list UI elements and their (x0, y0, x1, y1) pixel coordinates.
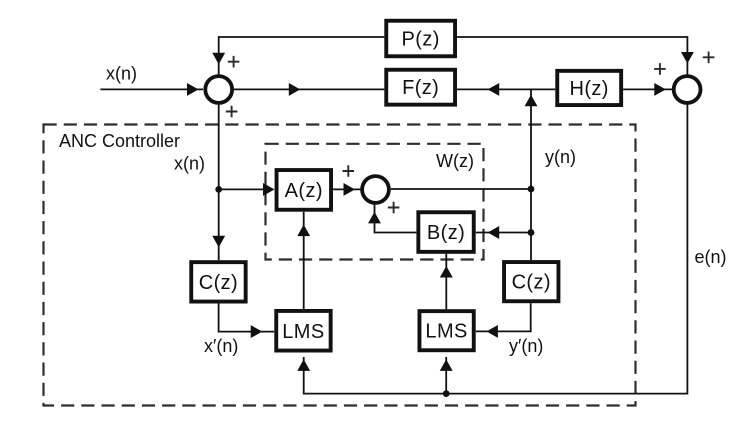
W(z) dashed boundary (266, 144, 484, 260)
svg-text:y′(n): y′(n) (509, 336, 543, 356)
wire left summer down to C(z) (218, 105, 220, 261)
svg-text:e(n): e(n) (695, 247, 727, 267)
wire P(z) to right summer (457, 37, 687, 75)
summer middle (W(z) output) (362, 176, 389, 203)
wire middle summer output (391, 188, 531, 190)
wire y(n) down to C(z) right (530, 189, 532, 260)
svg-text:A(z): A(z) (285, 180, 323, 202)
wire H(z) to right summer (623, 88, 672, 90)
junction x(n) tap (215, 186, 222, 193)
arrowhead into left LMS (251, 326, 261, 337)
arrowhead up into middle summer (369, 213, 380, 223)
block C(z) left (191, 262, 245, 301)
wire left summer to F(z) (234, 88, 384, 90)
block P(z) primary path (386, 21, 455, 57)
arrowhead down into left summer (213, 53, 224, 63)
svg-text:B(z): B(z) (427, 222, 465, 244)
svg-text:LMS: LMS (425, 321, 467, 343)
block LMS left (276, 311, 330, 351)
svg-text:LMS: LMS (282, 321, 324, 343)
ANC Controller dashed boundary (44, 125, 636, 406)
wire x(n) to A(z) (219, 188, 266, 190)
wire left LMS up to A(z) (303, 212, 305, 309)
junction to B(z) (528, 229, 535, 236)
arrowhead into right LMS (487, 326, 497, 337)
junction y(n) (528, 186, 535, 193)
arrowhead down into C(z) (213, 236, 224, 246)
arrowhead down into right summer (682, 53, 693, 63)
plus top-left of middle summer (343, 165, 355, 177)
block C(z) right (504, 262, 558, 301)
wire H(z) to F(z) (457, 88, 555, 90)
svg-text:C(z): C(z) (199, 272, 238, 294)
svg-text:ANC Controller: ANC Controller (59, 131, 180, 151)
plus left of right summer (654, 63, 666, 75)
wire B(z) output to middle summer (375, 204, 417, 232)
block B(z) (418, 212, 473, 252)
wire y(n) riser (530, 89, 532, 189)
wire e(n) feedback down and across (304, 105, 688, 394)
svg-text:P(z): P(z) (402, 29, 440, 51)
svg-text:H(z): H(z) (570, 78, 609, 100)
wire A(z) to middle summer (333, 188, 361, 190)
plus bottom-right of middle summer (388, 202, 400, 214)
arrowhead up into left LMS (298, 360, 309, 370)
block A(z) (277, 170, 332, 210)
svg-text:x(n): x(n) (174, 153, 205, 173)
arrowhead up into right LMS (441, 360, 452, 370)
wire e(n) up to right LMS (445, 357, 447, 394)
svg-text:x(n): x(n) (106, 64, 137, 84)
wire x(n) input (100, 88, 203, 90)
arrowhead into B(z) (489, 227, 499, 238)
arrowhead into middle summer (344, 184, 354, 195)
junction e(n) to right LMS (443, 390, 450, 397)
block H(z) secondary path (557, 71, 621, 105)
block LMS right (419, 311, 473, 350)
wire C(z) to left LMS (219, 304, 275, 332)
summer right (error junction) (674, 76, 701, 103)
svg-text:x′(n): x′(n) (204, 336, 238, 356)
block F(z) feedback path (386, 70, 455, 105)
svg-text:F(z): F(z) (402, 77, 439, 99)
summer left (input junction) (205, 76, 232, 103)
wire left summer top to P(z) (219, 37, 385, 75)
svg-text:W(z): W(z) (436, 151, 474, 171)
arrowhead up into A(z) (298, 226, 309, 236)
arrowhead into right summer (655, 84, 665, 95)
svg-text:C(z): C(z) (512, 272, 551, 294)
arrowhead toward F(z) (leftward) (489, 84, 499, 95)
wire C(z) right to right LMS (476, 303, 531, 331)
svg-text:y(n): y(n) (545, 147, 576, 167)
plus bottom-right of left summer (226, 106, 238, 118)
arrowhead toward F(z) (289, 84, 299, 95)
arrowhead up into B(z) (441, 267, 452, 277)
plus right of right summer (703, 52, 715, 64)
wire junction to B(z) (476, 232, 531, 234)
wire right LMS up to B(z) (445, 254, 447, 309)
arrowhead up into main line (525, 96, 536, 106)
arrowhead into A(z) (264, 184, 274, 195)
arrowhead into left summer (188, 84, 198, 95)
plus top-right of left summer (228, 56, 240, 68)
